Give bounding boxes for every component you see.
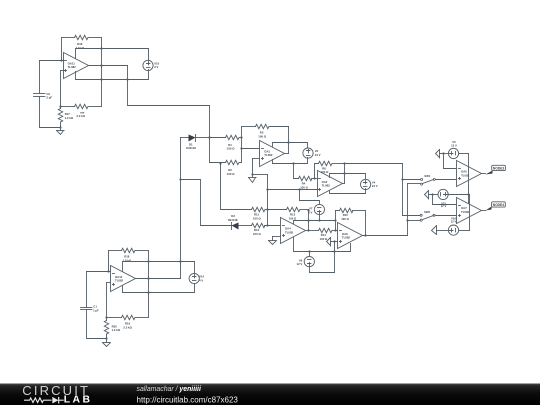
voltage source V14 4V [189, 273, 204, 283]
ground flag V16 [432, 226, 449, 235]
resistor R11 100 [252, 207, 268, 220]
junction out-riser/V+ rail [179, 260, 181, 262]
resistor R2 100 [210, 138, 242, 176]
wire OA11 output row [89, 65, 128, 67]
svg-text:2.2 kΩ: 2.2 kΩ [123, 325, 132, 329]
junction out-riser/V- rail [126, 78, 128, 80]
svg-text:12 V: 12 V [441, 204, 447, 208]
junction riser/output row [100, 64, 102, 66]
resistor R13 100 [268, 207, 309, 230]
resistor R17 1.2k [58, 107, 74, 128]
svg-text:TL082: TL082 [322, 183, 331, 187]
junction riser/V+ rail [147, 260, 149, 262]
voltage source V3 24V [303, 148, 321, 158]
wire R18 left riser [108, 251, 110, 272]
op-amp OA5 (TL082) [457, 161, 482, 187]
wire OA12 V+ rail [123, 262, 195, 275]
svg-text:100 Ω: 100 Ω [341, 217, 349, 221]
wire riser from OA2 out [402, 164, 404, 216]
op-amp OA11 (TL082) [64, 53, 89, 79]
wire OA2 V- rail [330, 189, 366, 194]
svg-text:TL082: TL082 [285, 230, 294, 234]
wire SW1 to OA5 [436, 179, 457, 181]
junction R16/inverting [60, 59, 62, 61]
voltage source V9 12V [297, 252, 315, 267]
wire to SW1 top throw [403, 179, 421, 181]
junction V9 top [308, 250, 310, 252]
wire D1 riser to OA12 output [180, 138, 182, 279]
junction R13 riser/row220 [307, 209, 309, 221]
wire OA1 V- rail [273, 158, 308, 164]
svg-text:2 V: 2 V [154, 65, 158, 69]
junction OA6+ node [333, 240, 335, 242]
wire OA11 non-inverting input [61, 71, 64, 107]
wire OA12 non-inverting input [107, 283, 111, 318]
wire OA12 output row [136, 278, 181, 280]
svg-text:100 Ω: 100 Ω [320, 237, 328, 241]
switch SW1 [421, 174, 436, 185]
junction D3 branch [179, 178, 181, 180]
junction riser/SW1 top [401, 178, 403, 180]
svg-text:TL082: TL082 [68, 65, 77, 69]
junction R19/R20 [105, 316, 107, 318]
wire D3 feed [181, 180, 232, 226]
resistor R19 2.2k [107, 315, 149, 329]
wire SW2 to OA7 [436, 215, 457, 217]
junction R17/C2/ground [59, 126, 61, 128]
flag NODE3 [486, 165, 506, 174]
junction riser/V+ rail [100, 47, 102, 49]
junction V- rail branch [292, 162, 294, 164]
svg-text:TL082: TL082 [461, 210, 470, 214]
wire OA12 V- rail [123, 284, 195, 293]
svg-text:NODE3: NODE3 [493, 166, 505, 170]
wire to OA7 inverting [433, 195, 457, 205]
wire OA2 non-inverting row [268, 189, 318, 191]
ground flag V5 [436, 150, 449, 159]
svg-text:100 Ω: 100 Ω [253, 216, 261, 220]
resistor R1 100 [210, 135, 242, 150]
wire OA6+ riser down [334, 242, 336, 273]
svg-text:1.2 kΩ: 1.2 kΩ [65, 116, 74, 120]
resistor nnr 2.2k [61, 104, 102, 118]
wire OA4 output [306, 230, 309, 232]
resistor R12 100 [252, 223, 281, 236]
wire to SW1 bottom throw [408, 183, 421, 185]
svg-text:100 Ω: 100 Ω [289, 216, 297, 220]
junction V15 row/OA5 V- [467, 193, 469, 195]
wire OA4 V+ row 220 [294, 221, 336, 224]
junction riser/V- row [333, 250, 335, 252]
junction R3 riser/V+ rail [287, 141, 289, 143]
node nnr junction [59, 105, 61, 107]
svg-text:2 µF: 2 µF [46, 96, 52, 100]
svg-text:SW2: SW2 [424, 210, 431, 214]
junction V7/row220 [318, 219, 320, 221]
wire OA12 inverting row [87, 271, 111, 273]
voltage source V15 12V [438, 189, 448, 208]
junction tie/OA2+ row [266, 188, 268, 190]
op-amp OA7 (TL082) [457, 198, 482, 224]
capacitor C2 2uF [34, 61, 61, 128]
svg-text:http://circuitlab.com/c87x623: http://circuitlab.com/c87x623 [137, 395, 239, 404]
junction V5 minus node [442, 152, 444, 154]
svg-text:100 Ω: 100 Ω [227, 172, 235, 176]
resistor R16 1.8k feedback [62, 35, 102, 50]
junction ground tap [251, 173, 253, 175]
svg-text:24 V: 24 V [372, 184, 378, 188]
svg-text:TL082: TL082 [115, 278, 124, 282]
ground below R17 [57, 128, 65, 135]
junction riser/output row [147, 277, 149, 279]
op-amp OA2 (TL082) [318, 171, 343, 197]
wire D1 anode lead [181, 137, 189, 139]
svg-text:100 Ω: 100 Ω [300, 185, 308, 189]
resistor R6 100 feedback [315, 161, 345, 183]
svg-text:1N4148: 1N4148 [228, 218, 238, 222]
wire to OA5 inverting [444, 154, 457, 169]
svg-text:100 Ω: 100 Ω [321, 170, 329, 174]
wire R1-R2 right riser [241, 127, 243, 163]
junction R1/riser [240, 136, 242, 138]
junction R4/R6 riser [313, 177, 315, 179]
svg-text:1N4148: 1N4148 [186, 146, 196, 150]
junction D1 cathode node [208, 136, 210, 138]
junction riser/V- rail [100, 78, 102, 80]
svg-text:1.2 kΩ: 1.2 kΩ [112, 328, 121, 332]
junction riser/V- rail [147, 291, 149, 293]
wire V5 to OA5 V+ [459, 154, 469, 204]
svg-text:100 Ω: 100 Ω [227, 147, 235, 151]
svg-text:1 µF: 1 µF [93, 308, 99, 312]
wire to SW2 top throw [403, 215, 421, 217]
junction riser/SW2 bottom [406, 219, 408, 221]
wire OA1 V+ rail [273, 143, 308, 149]
junction R20/C1/ground [105, 337, 107, 339]
svg-text:12 V: 12 V [451, 220, 457, 224]
ground flag OA6 non-inverting [327, 238, 338, 247]
wire V15 to OA7 V+ [448, 195, 470, 231]
junction R18/inverting [107, 270, 109, 272]
wire OA2 output to switches [345, 163, 403, 165]
diode D1 1N4148 [186, 135, 210, 151]
op-amp OA1 (TL082) [260, 141, 285, 167]
junction R15/output [364, 234, 366, 236]
wire OA5 output [482, 173, 486, 175]
wire OA11 output to D1 row [128, 66, 210, 138]
wire OA1 non-inverting input [253, 159, 260, 178]
svg-text:TL082: TL082 [264, 153, 273, 157]
junction R13 riser/OA4 out [307, 229, 309, 231]
ground flag V15 [425, 191, 439, 200]
wire OA11 V+ rail [76, 49, 149, 62]
vertical tie 267.3 [267, 175, 269, 226]
wire OA4 non-inverting input [273, 237, 281, 241]
wire R16 right riser [101, 38, 103, 107]
junction OA2+ branch [298, 188, 300, 190]
flag NODE4 [486, 202, 506, 211]
wire to V7 top [300, 190, 320, 206]
switch SW2 [420, 210, 435, 221]
svg-text:SW1: SW1 [424, 174, 431, 178]
svg-text:100 Ω: 100 Ω [253, 232, 261, 236]
junction tie/R12 row [266, 224, 268, 226]
wire ground row to OA2 [253, 174, 268, 176]
wire to SW2 bottom throw [408, 220, 421, 222]
diode D3 1N4148 [228, 214, 252, 229]
svg-text:24 V: 24 V [315, 153, 321, 157]
op-amp OA4 (TL082) [281, 218, 306, 244]
junction R6 riser/V+ rail [343, 172, 345, 174]
voltage source V5 12V [448, 140, 458, 158]
svg-text:sallamachar / yeniiiii: sallamachar / yeniiiii [137, 386, 202, 393]
voltage source V7 0V [308, 204, 324, 214]
wire V7 bottom stub [319, 215, 321, 221]
svg-text:100 Ω: 100 Ω [258, 134, 266, 138]
ground below OA4 [269, 241, 277, 245]
wire OA6 output [363, 235, 408, 237]
svg-text:TL082: TL082 [342, 236, 351, 240]
svg-text:TL082: TL082 [461, 173, 470, 177]
wire OA1 output [285, 153, 289, 155]
wire OA1 inverting input [242, 148, 260, 150]
op-amp OA12 (TL082) [111, 266, 136, 292]
svg-text:2.2 kΩ: 2.2 kΩ [77, 114, 86, 118]
wire OA7 output [482, 210, 486, 212]
wire V9 bottom [310, 267, 335, 273]
resistor R15 100 feedback [336, 208, 366, 235]
junction inverting row/riser [240, 147, 242, 149]
resistor R18 1.8k feedback [109, 248, 149, 262]
wire OA2 V+ rail [330, 174, 366, 180]
wire OA4 V- rail [294, 238, 351, 252]
wire R16 left lead down [61, 38, 63, 61]
junction R6/output [343, 162, 345, 164]
wire OA11 V- rail [76, 70, 149, 80]
wire V16 to OA7 V- [459, 230, 470, 232]
resistor R20 1.2k [104, 318, 121, 339]
ground below R20 [103, 339, 111, 347]
wire riser from OA6 out [407, 184, 409, 236]
svg-text:4 V: 4 V [199, 278, 203, 282]
svg-text:12 V: 12 V [451, 144, 457, 148]
resistor R14 100 [309, 228, 338, 241]
voltage source V16 12V [448, 216, 458, 235]
svg-text:12 V: 12 V [297, 262, 303, 266]
svg-text:LAB: LAB [64, 394, 93, 405]
svg-text:1.8 kΩ: 1.8 kΩ [76, 46, 85, 50]
junction V15 minus node [431, 193, 433, 195]
capacitor C1 1uF [81, 272, 107, 339]
wire OA11 inverting input row [40, 60, 64, 62]
voltage source V10 2V [143, 60, 160, 70]
junction row220 end [334, 219, 336, 221]
wire R18 right riser [148, 251, 150, 318]
resistor R4 100 [294, 164, 318, 190]
op-amp OA6 (TL082) [338, 223, 363, 249]
voltage source V4 24V [361, 179, 378, 189]
wire R2 node to R11 [219, 162, 251, 209]
ground below OA1 [249, 178, 257, 183]
junction tie/R11 row [266, 208, 268, 210]
junction R14/R15 riser [334, 229, 336, 231]
svg-text:NODE4: NODE4 [493, 203, 505, 207]
resistor R3 100 feedback [242, 124, 289, 153]
footer bar [0, 384, 540, 405]
